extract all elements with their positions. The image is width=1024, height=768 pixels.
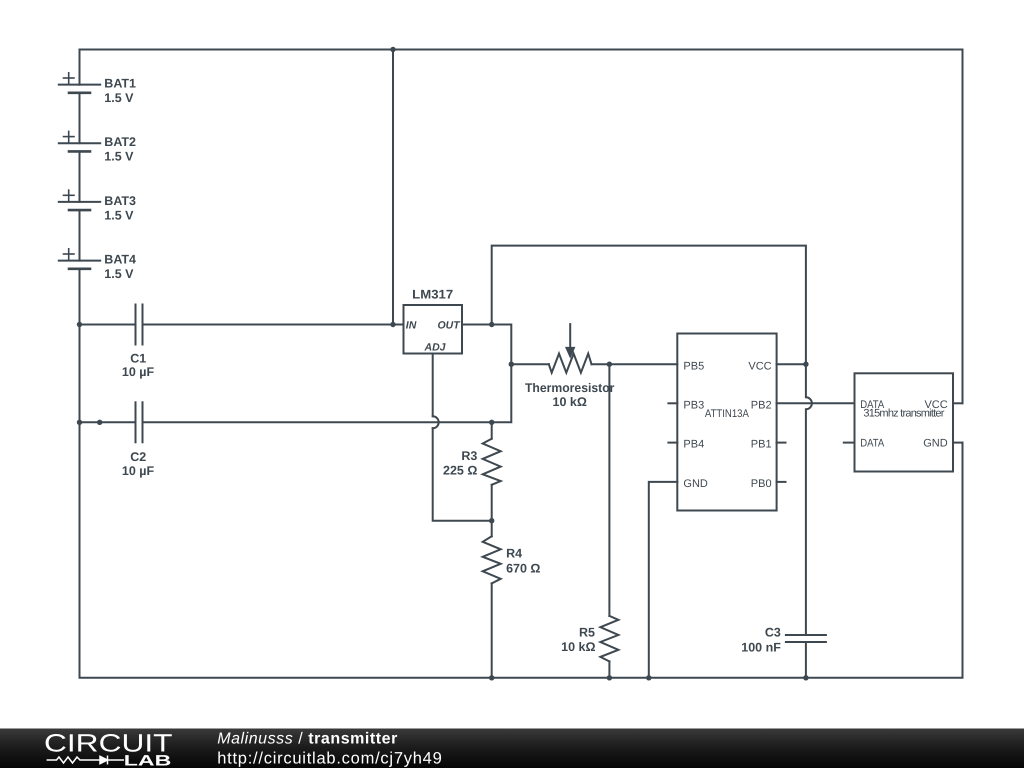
junction R3-R4-ADJ — [489, 518, 494, 523]
svg-text:OUT: OUT — [438, 319, 462, 331]
resistor R3 — [483, 439, 501, 485]
capacitor C3 — [786, 634, 826, 636]
wire ADJ drop with hop — [432, 354, 434, 417]
svg-text:BAT3: BAT3 — [104, 194, 136, 208]
svg-text:VCC: VCC — [748, 361, 771, 373]
svg-text:R5: R5 — [579, 625, 595, 639]
wire thermoresistor to PB5 — [592, 363, 678, 365]
junction VCC rail — [803, 362, 808, 367]
svg-text:10 kΩ: 10 kΩ — [561, 640, 595, 654]
svg-text:10 kΩ: 10 kΩ — [553, 395, 587, 409]
svg-text:1.5 V: 1.5 V — [104, 208, 134, 222]
svg-text:BAT4: BAT4 — [104, 253, 136, 267]
transmitter box — [855, 373, 954, 471]
svg-text:BAT2: BAT2 — [104, 135, 136, 149]
capacitor C1 — [136, 305, 143, 345]
svg-text:GND: GND — [923, 438, 948, 450]
battery BAT1 — [59, 50, 100, 144]
svg-text:PB4: PB4 — [683, 439, 704, 451]
wire C2 row — [80, 421, 136, 423]
junction C2 left — [77, 420, 82, 425]
svg-text:http://circuitlab.com/cj7yh49: http://circuitlab.com/cj7yh49 — [217, 750, 442, 768]
svg-text:1.5 V: 1.5 V — [104, 150, 134, 164]
wire GND transmitter — [953, 442, 963, 444]
wire bottom border — [80, 269, 963, 678]
svg-text:PB2: PB2 — [751, 399, 772, 411]
svg-text:C3: C3 — [765, 626, 781, 640]
wire PB1 stub — [777, 442, 786, 444]
svg-text:100 nF: 100 nF — [741, 641, 781, 655]
wire ATTIN13A VCC to rail — [777, 363, 806, 365]
resistor R4 — [483, 536, 501, 583]
svg-text:Malinusss / transmitter: Malinusss / transmitter — [217, 731, 398, 748]
junction thermoresistor right — [607, 362, 612, 367]
junction R5 bottom — [607, 675, 612, 680]
wire OUT riser to top rail — [492, 246, 806, 365]
svg-text:10 µF: 10 µF — [122, 464, 155, 478]
svg-text:PB0: PB0 — [751, 478, 772, 490]
svg-text:R3: R3 — [461, 449, 477, 463]
battery BAT3 — [59, 190, 100, 261]
svg-text:PB1: PB1 — [751, 439, 772, 451]
svg-text:ADJ: ADJ — [424, 341, 447, 353]
junction C2 left 2 — [97, 420, 102, 425]
op-amp U1 LM317 box — [404, 305, 463, 354]
wire top border — [80, 50, 963, 404]
svg-text:BAT1: BAT1 — [104, 77, 136, 91]
wire C1 row — [80, 324, 136, 326]
junction GND bottom — [646, 675, 651, 680]
svg-text:DATA: DATA — [860, 438, 885, 450]
thermoresistor TH1 zigzag — [549, 354, 592, 373]
junction IN — [390, 322, 395, 327]
wire VCC transmitter — [953, 402, 963, 404]
battery BAT2 — [59, 131, 100, 202]
IC ATTIN13A box — [677, 334, 776, 511]
junction R3 top — [489, 420, 494, 425]
wire R5 bottom — [608, 661, 610, 677]
svg-text:GND: GND — [683, 478, 708, 490]
wire R3 bottom — [491, 485, 493, 537]
svg-text:10 µF: 10 µF — [122, 365, 155, 379]
svg-text:PB3: PB3 — [683, 399, 704, 411]
wire vertical to LM317 IN — [392, 50, 394, 325]
svg-text:670 Ω: 670 Ω — [506, 562, 540, 576]
wire R3 chain top — [491, 422, 493, 438]
logo zigzag + diode — [47, 756, 124, 765]
wire DATA2 stub — [844, 442, 855, 444]
capacitor C2 — [136, 402, 143, 442]
svg-text:315mhz transmitter: 315mhz transmitter — [863, 408, 944, 420]
svg-text:IN: IN — [406, 319, 417, 331]
wire PB2 to DATA — [777, 402, 855, 404]
junction thermoresistor left — [509, 362, 514, 367]
wire R4 to bottom rail — [491, 583, 493, 677]
svg-text:LAB: LAB — [124, 752, 172, 768]
svg-text:LM317: LM317 — [412, 287, 453, 301]
svg-text:1.5 V: 1.5 V — [104, 91, 134, 105]
junction C3 bottom — [803, 675, 808, 680]
svg-text:Thermoresistor: Thermoresistor — [525, 381, 615, 395]
wire PB4 stub — [668, 442, 677, 444]
wire PB0 stub — [777, 481, 786, 483]
wire GND drop — [649, 482, 678, 678]
svg-text:C1: C1 — [130, 351, 146, 365]
svg-text:R4: R4 — [506, 547, 522, 561]
battery BAT4 — [59, 249, 100, 269]
junction R4 bottom — [489, 675, 494, 680]
svg-text:PB5: PB5 — [683, 361, 704, 373]
svg-text:1.5 V: 1.5 V — [104, 267, 134, 281]
wire R5 drop — [608, 364, 610, 616]
thermoresistor arrow — [569, 324, 571, 348]
wire LM317 OUT — [462, 325, 511, 365]
svg-text:ATTIN13A: ATTIN13A — [705, 408, 750, 420]
junction C1 left — [77, 322, 82, 327]
junction top rail — [390, 47, 395, 52]
wire C1 to LM317 — [143, 324, 404, 326]
svg-text:225 Ω: 225 Ω — [443, 463, 477, 477]
wire VCC rail drop with hop to C3 — [806, 364, 812, 635]
junction OUT — [489, 322, 494, 327]
wire C2 to corner — [143, 364, 549, 422]
wire PB3 stub — [668, 402, 677, 404]
resistor R5 — [600, 616, 618, 662]
svg-text:C2: C2 — [130, 450, 146, 464]
